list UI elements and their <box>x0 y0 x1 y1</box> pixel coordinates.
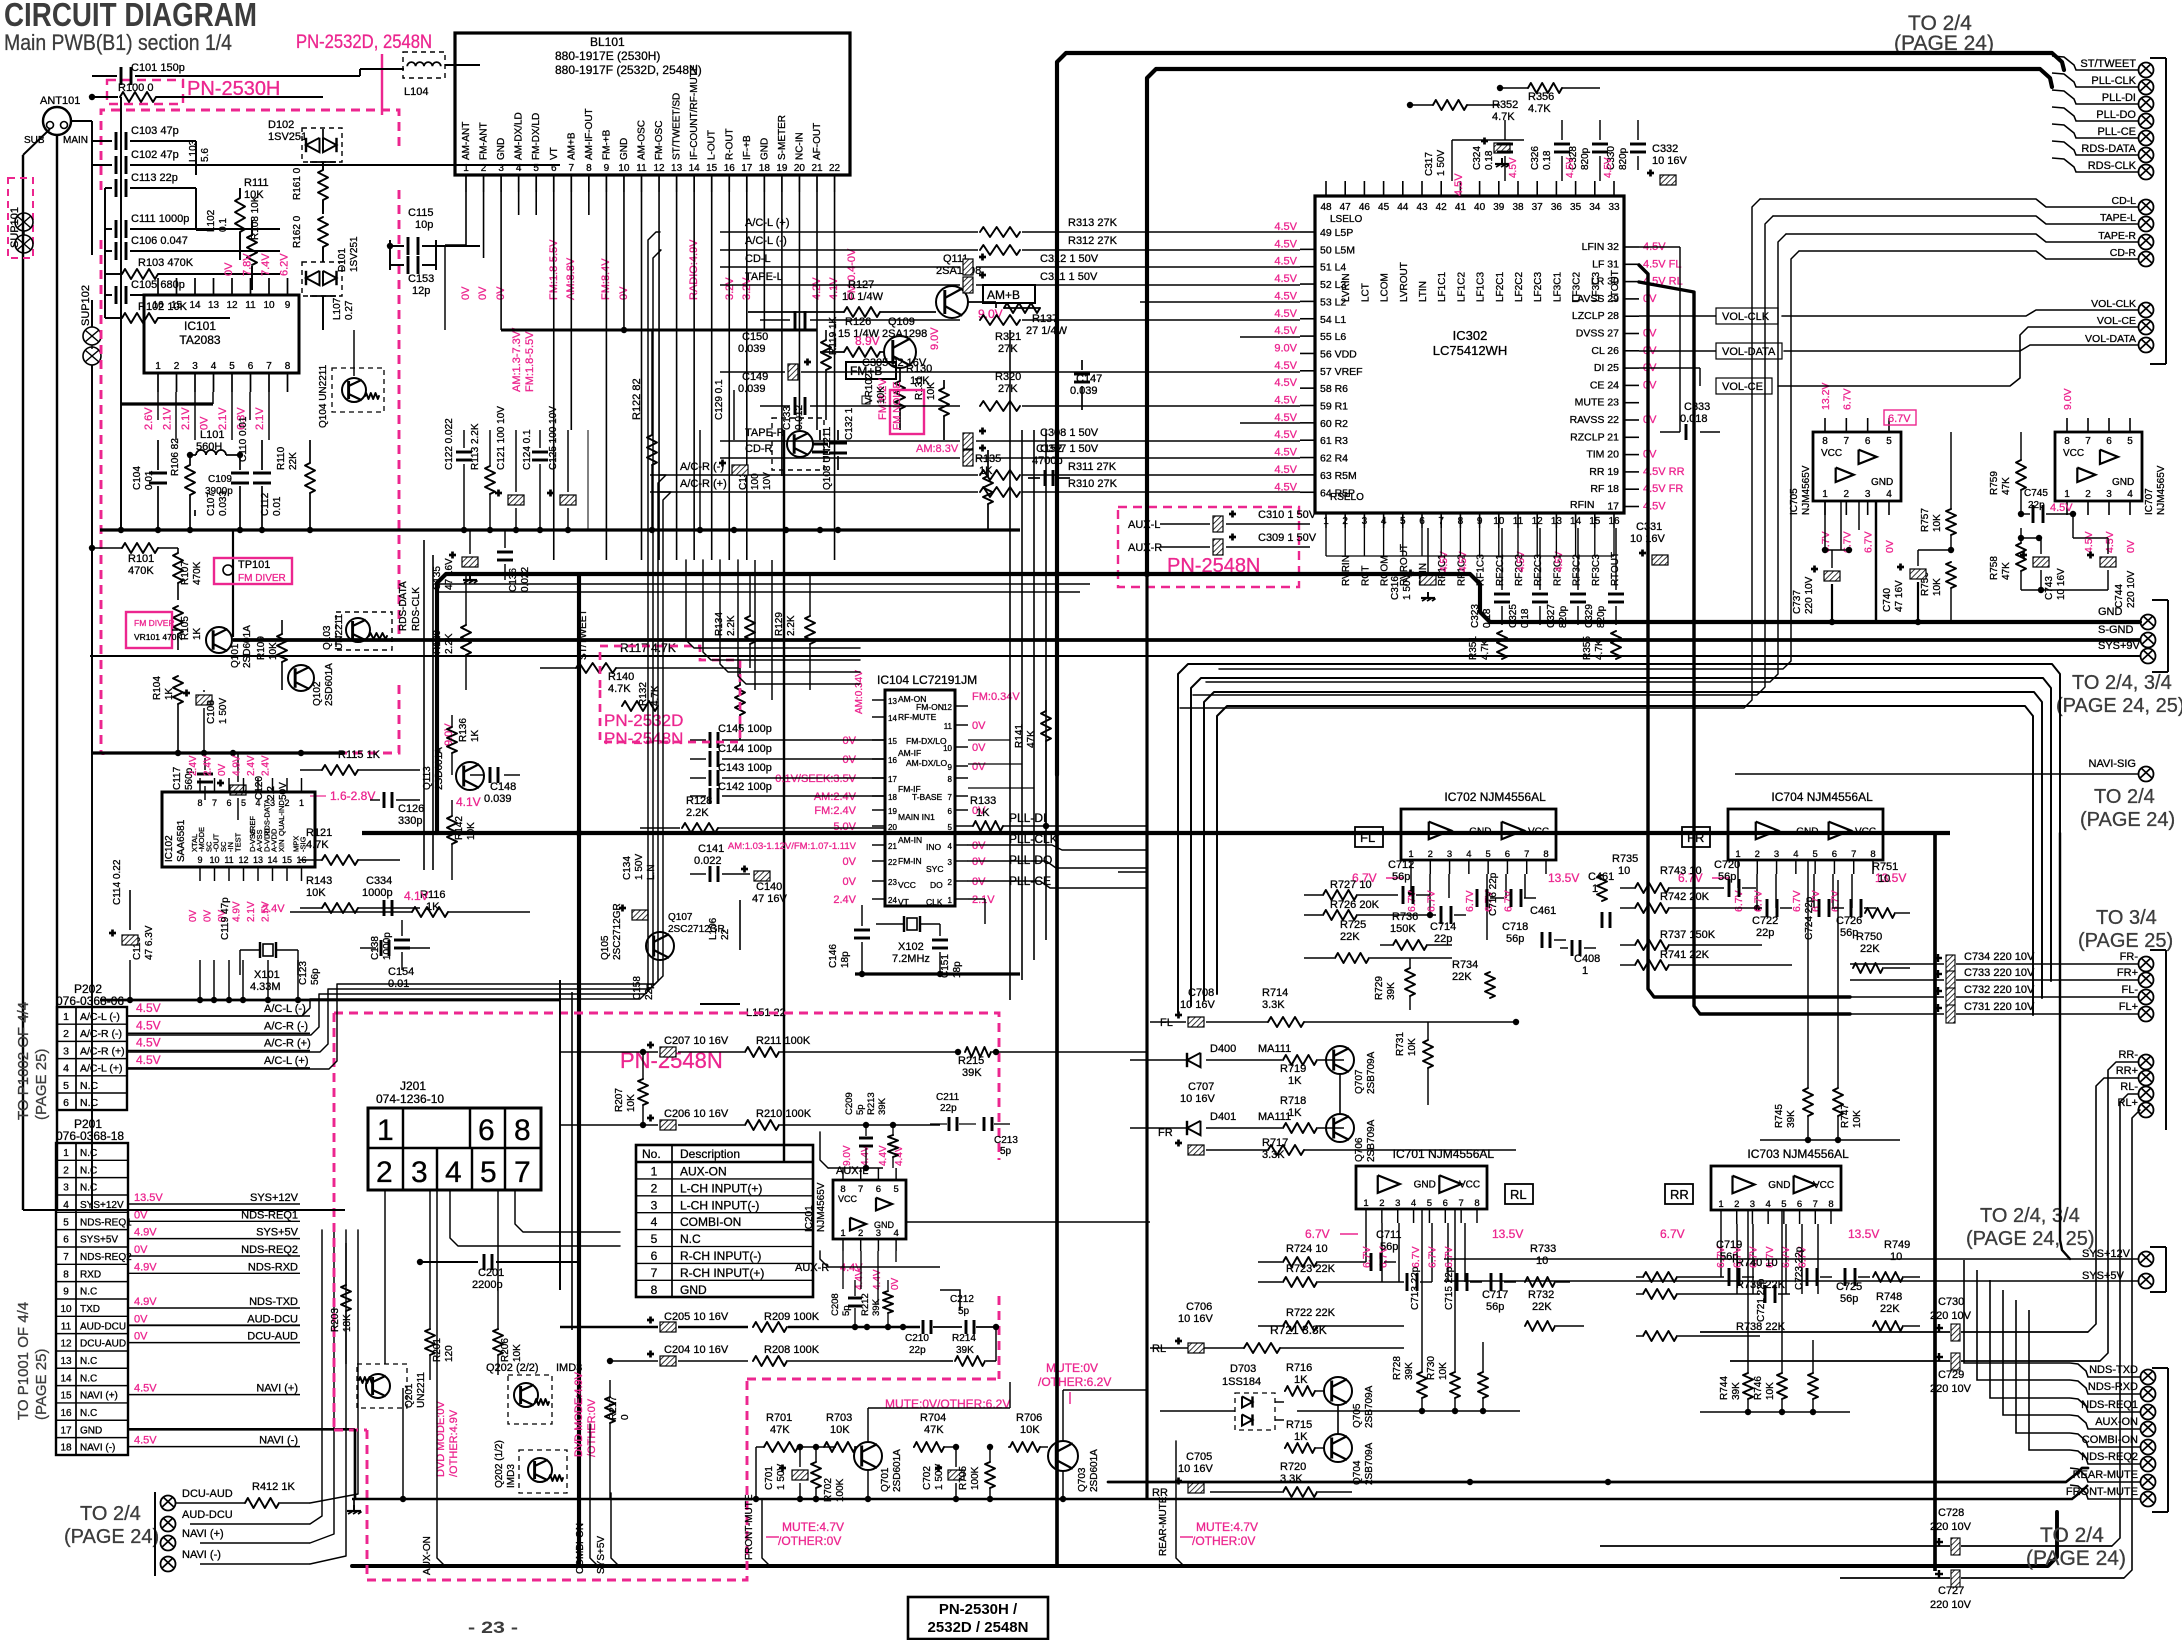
svg-text:VOL-CE: VOL-CE <box>2097 315 2136 327</box>
svg-text:22p: 22p <box>909 1345 926 1356</box>
svg-text:1: 1 <box>63 1011 69 1023</box>
svg-text:Q102: Q102 <box>312 681 323 706</box>
svg-text:GND: GND <box>1768 1180 1790 1191</box>
svg-text:2.6V: 2.6V <box>143 407 155 430</box>
svg-text:16: 16 <box>60 1408 72 1419</box>
svg-text:R716: R716 <box>1286 1362 1312 1374</box>
svg-text:(PAGE 24, 25): (PAGE 24, 25) <box>2056 695 2182 717</box>
svg-text:RR-: RR- <box>2118 1049 2138 1061</box>
wire top area verticals from BL101 <box>444 245 446 330</box>
svg-text:6.7V: 6.7V <box>1752 890 1764 912</box>
svg-text:RF3C2: RF3C2 <box>1572 554 1583 586</box>
svg-text:REAR-MUTE: REAR-MUTE <box>1158 1496 1169 1556</box>
svg-text:1K: 1K <box>192 627 203 640</box>
svg-text:1: 1 <box>1323 516 1329 527</box>
svg-text:R703: R703 <box>826 1412 852 1424</box>
svg-text:20: 20 <box>888 823 897 832</box>
svg-text:44: 44 <box>1397 202 1409 213</box>
svg-text:AM:1.3-7.3V/: AM:1.3-7.3V/ <box>511 327 523 392</box>
pins BL101 <box>465 175 467 192</box>
svg-text:VCC: VCC <box>2063 448 2084 459</box>
svg-text:6.7V: 6.7V <box>1443 1246 1455 1268</box>
svg-text:R724 10: R724 10 <box>1286 1243 1328 1255</box>
wire mute rail left <box>352 1485 2088 1499</box>
svg-text:C141: C141 <box>698 843 724 855</box>
connector REAR-MUTE <box>2141 1475 2156 1490</box>
svg-text:CE 24: CE 24 <box>1590 379 1619 391</box>
svg-text:SYS+5V: SYS+5V <box>596 1536 607 1574</box>
svg-text:RDS-DATA: RDS-DATA <box>2081 143 2136 155</box>
svg-text:4.5V: 4.5V <box>1274 429 1297 441</box>
svg-text:NJM4565V: NJM4565V <box>2156 465 2167 515</box>
svg-text:NJM4565V: NJM4565V <box>1801 465 1812 515</box>
svg-text:4: 4 <box>2127 489 2133 500</box>
svg-text:/OTHER:0V: /OTHER:0V <box>778 1534 841 1548</box>
svg-text:RVRIN: RVRIN <box>1341 555 1352 586</box>
svg-text:2: 2 <box>1844 489 1850 500</box>
svg-text:GND: GND <box>619 138 630 160</box>
svg-text:COMBI-ON: COMBI-ON <box>2082 1434 2138 1446</box>
wires IC701 pins down <box>1365 1223 1367 1262</box>
svg-text:22K: 22K <box>1340 931 1360 943</box>
svg-text:330p: 330p <box>398 815 422 827</box>
svg-text:C325: C325 <box>1508 604 1519 628</box>
svg-text:10: 10 <box>60 1304 72 1315</box>
svg-text:C333: C333 <box>1684 401 1710 413</box>
svg-text:150K: 150K <box>1390 923 1416 935</box>
svg-text:RCOM: RCOM <box>1380 555 1391 586</box>
svg-text:T-BASE: T-BASE <box>912 792 943 802</box>
connector NAVI (+) bottom left <box>161 1536 176 1551</box>
wire A/C route 0 <box>127 232 660 1016</box>
svg-text:0.033: 0.033 <box>218 491 229 516</box>
svg-text:R-OUT: R-OUT <box>724 128 735 160</box>
svg-text:A/C-L (-): A/C-L (-) <box>80 1011 120 1023</box>
svg-text:Q705: Q705 <box>1352 1403 1363 1428</box>
svg-text:10K: 10K <box>512 1344 523 1362</box>
svg-text:DCU-AUD: DCU-AUD <box>182 1488 233 1500</box>
svg-text:56p: 56p <box>1392 871 1410 883</box>
svg-text:49 L5P: 49 L5P <box>1320 227 1353 239</box>
svg-text:FM-OSC: FM-OSC <box>654 121 665 160</box>
svg-text:CL 26: CL 26 <box>1591 345 1619 357</box>
svg-text:C119 47p: C119 47p <box>220 897 231 940</box>
svg-text:4: 4 <box>948 842 953 851</box>
wire IC705 pins to junction row <box>1824 501 1826 550</box>
wire VOL rows to connectors <box>1782 310 2138 316</box>
svg-text:C702: C702 <box>922 1466 933 1490</box>
svg-text:1SS184: 1SS184 <box>1222 1376 1261 1388</box>
svg-text:10 16V: 10 16V <box>1178 1463 1214 1475</box>
pink box FM+B <box>846 362 896 379</box>
svg-text:COMBI-ON: COMBI-ON <box>680 1215 741 1229</box>
svg-text:GND: GND <box>2098 606 2123 618</box>
svg-text:6: 6 <box>2106 436 2112 447</box>
svg-text:4.1V: 4.1V <box>456 795 481 809</box>
svg-text:4.7K: 4.7K <box>650 685 661 706</box>
connector GND <box>2141 615 2156 630</box>
svg-text:10K: 10K <box>1438 1362 1449 1380</box>
svg-text:56p: 56p <box>1380 1241 1398 1253</box>
svg-text:7: 7 <box>2085 436 2091 447</box>
svg-text:16: 16 <box>1608 516 1620 527</box>
svg-text:LF1C3: LF1C3 <box>1476 272 1487 302</box>
svg-text:A/C-L (+): A/C-L (+) <box>264 1055 309 1067</box>
svg-text:C316: C316 <box>1390 576 1401 600</box>
svg-text:5: 5 <box>2127 436 2133 447</box>
svg-text:C727: C727 <box>1938 1585 1964 1597</box>
svg-text:R742 20K: R742 20K <box>1660 891 1710 903</box>
svg-text:3: 3 <box>498 163 504 174</box>
svg-text:220 10V: 220 10V <box>2126 570 2137 608</box>
wire R141 to PLL <box>1118 871 1147 873</box>
svg-text:59 R1: 59 R1 <box>1320 401 1348 413</box>
svg-text:0V: 0V <box>972 856 986 868</box>
svg-text:CIRCUIT DIAGRAM: CIRCUIT DIAGRAM <box>4 0 257 33</box>
wire P201 gnd to rail <box>354 1429 357 1499</box>
svg-text:C134: C134 <box>622 856 633 880</box>
svg-text:TAPE-L: TAPE-L <box>745 271 783 283</box>
svg-text:12: 12 <box>943 703 952 712</box>
svg-text:10 16V: 10 16V <box>1180 999 1216 1011</box>
svg-text:8: 8 <box>1822 436 1828 447</box>
svg-text:3.3K: 3.3K <box>1262 999 1285 1011</box>
svg-text:C108: C108 <box>206 700 217 724</box>
svg-text:0V: 0V <box>203 909 214 922</box>
svg-text:6.7V: 6.7V <box>1863 531 1875 553</box>
svg-text:47 16V: 47 16V <box>1894 580 1905 612</box>
svg-text:VCC: VCC <box>1459 1180 1480 1191</box>
svg-text:2.1V: 2.1V <box>972 894 995 906</box>
svg-text:MA111: MA111 <box>1258 1111 1291 1123</box>
svg-text:LF2C2: LF2C2 <box>1514 272 1525 302</box>
svg-text:2SB709A: 2SB709A <box>1366 1051 1377 1094</box>
svg-text:R110: R110 <box>276 446 287 470</box>
svg-text:LSELO: LSELO <box>1330 214 1362 225</box>
connector SYS+12V <box>2139 1252 2154 1267</box>
svg-text:38: 38 <box>1512 202 1524 213</box>
svg-text:39K: 39K <box>871 1298 882 1316</box>
pink box AM+B <box>983 285 1035 303</box>
svg-text:46: 46 <box>1359 202 1371 213</box>
svg-text:IF-+B: IF-+B <box>742 135 753 160</box>
svg-text:10 16V: 10 16V <box>1652 155 1688 167</box>
svg-text:4.5V: 4.5V <box>136 1036 161 1050</box>
wire vertical x1057 lower <box>1055 775 1059 1566</box>
svg-text:40: 40 <box>1474 202 1486 213</box>
svg-text:6.7V: 6.7V <box>1464 890 1476 912</box>
svg-text:C149: C149 <box>742 371 768 383</box>
svg-text:5: 5 <box>480 1156 497 1189</box>
svg-text:60 R2: 60 R2 <box>1320 418 1348 430</box>
svg-text:5: 5 <box>1427 1198 1432 1209</box>
svg-text:VCC: VCC <box>898 880 916 890</box>
svg-text:TP101: TP101 <box>238 559 270 571</box>
svg-text:4.7K: 4.7K <box>608 683 631 695</box>
svg-text:C107: C107 <box>206 492 217 516</box>
svg-text:39K: 39K <box>956 1345 974 1356</box>
svg-text:13.5V: 13.5V <box>1848 1227 1879 1241</box>
svg-text:5: 5 <box>241 798 246 808</box>
svg-text:10K: 10K <box>1765 1382 1776 1400</box>
svg-text:0V: 0V <box>199 416 211 430</box>
svg-text:10K: 10K <box>1020 1424 1040 1436</box>
svg-text:17: 17 <box>60 1425 72 1436</box>
svg-text:FRONT-MUTE: FRONT-MUTE <box>744 1494 755 1560</box>
svg-text:5: 5 <box>1812 849 1817 860</box>
svg-text:FM:2.4V: FM:2.4V <box>814 805 856 817</box>
svg-text:56p: 56p <box>1718 871 1736 883</box>
svg-text:IF-COUNT/RF-MUTE: IF-COUNT/RF-MUTE <box>689 64 700 160</box>
wire verticals center x1010 <box>1009 330 1011 1000</box>
svg-text:8.9V: 8.9V <box>855 334 880 348</box>
svg-text:N.C: N.C <box>80 1408 97 1419</box>
svg-text:39K: 39K <box>877 1097 888 1115</box>
svg-text:27K: 27K <box>998 343 1018 355</box>
svg-text:8: 8 <box>2064 436 2070 447</box>
svg-text:9: 9 <box>948 763 953 772</box>
svg-text:A/C-L (-): A/C-L (-) <box>264 1003 306 1015</box>
svg-text:PLL-DI: PLL-DI <box>1009 811 1046 825</box>
svg-text:10K: 10K <box>876 386 887 404</box>
inductor L104 <box>403 52 445 78</box>
svg-text:8: 8 <box>1543 849 1548 860</box>
svg-text:39K: 39K <box>1786 1110 1797 1128</box>
svg-text:9.0V: 9.0V <box>929 327 941 350</box>
svg-text:10: 10 <box>1493 516 1505 527</box>
svg-text:4.5V: 4.5V <box>1274 273 1297 285</box>
svg-text:NDS-REQ1: NDS-REQ1 <box>241 1209 298 1221</box>
wire BL101 pin wires to bus <box>587 430 589 530</box>
svg-text:R749: R749 <box>1884 1239 1910 1251</box>
svg-text:TO P1002 OF 4/4: TO P1002 OF 4/4 <box>15 1002 32 1120</box>
svg-text:ST/TWEET: ST/TWEET <box>578 609 589 660</box>
connector FRONT-MUTE <box>2141 1492 2156 1507</box>
svg-text:R701: R701 <box>766 1412 792 1424</box>
svg-text:2SB709A: 2SB709A <box>1364 1385 1375 1428</box>
svg-text:C124 0.1: C124 0.1 <box>522 429 533 470</box>
svg-text:AM+B: AM+B <box>566 132 577 160</box>
wire q108 cluster <box>699 430 701 530</box>
bus bottom y1566 <box>352 1512 2057 1566</box>
svg-text:RXD: RXD <box>80 1269 101 1280</box>
resistor extra vert right <box>1808 1373 1818 1399</box>
svg-text:6: 6 <box>63 1097 69 1109</box>
svg-text:FR-: FR- <box>2120 951 2139 963</box>
svg-text:C740: C740 <box>1882 588 1893 612</box>
svg-text:C206 10 16V: C206 10 16V <box>664 1108 729 1120</box>
resistor R356 4.7K <box>1528 83 1562 93</box>
svg-text:8: 8 <box>1828 1199 1833 1210</box>
svg-text:UN2211: UN2211 <box>416 1372 427 1408</box>
svg-text:0V: 0V <box>1643 328 1657 340</box>
svg-text:22K: 22K <box>1532 1301 1552 1313</box>
svg-text:C716 22p: C716 22p <box>1488 872 1499 916</box>
svg-text:D401: D401 <box>1210 1111 1236 1123</box>
wire A/C route 2 <box>127 475 666 1052</box>
transistor Q104 UN2211 <box>332 368 384 412</box>
IC IC104 LC72191JM <box>885 690 955 906</box>
svg-text:0V: 0V <box>134 1313 148 1325</box>
svg-text:TO 2/4: TO 2/4 <box>2040 1524 2104 1547</box>
capacitor C729 220 10V <box>1951 1353 1960 1370</box>
svg-text:TAPE-L: TAPE-L <box>2100 212 2136 224</box>
transistor Q704 2SB709A <box>1324 1434 1352 1462</box>
transistor Q102 2SD601A <box>288 665 314 691</box>
svg-text:18: 18 <box>60 1443 72 1454</box>
connector SYS+9V <box>2141 649 2156 664</box>
wire left bus verticals mid <box>57 1209 345 1211</box>
svg-text:TA2083: TA2083 <box>179 333 220 347</box>
svg-text:0V: 0V <box>460 286 472 300</box>
svg-text:R321: R321 <box>995 331 1021 343</box>
svg-text:MUTE 23: MUTE 23 <box>1575 397 1620 409</box>
svg-text:56p: 56p <box>1720 1251 1738 1263</box>
svg-text:3: 3 <box>1362 516 1368 527</box>
pink dashed box PN-2548N bottom <box>334 1013 999 1160</box>
svg-text:6.7V: 6.7V <box>1830 890 1842 912</box>
svg-text:R746: R746 <box>1753 1376 1764 1400</box>
svg-text:42: 42 <box>1436 202 1448 213</box>
svg-text:SYS+5V: SYS+5V <box>256 1227 299 1239</box>
svg-text:NDS-TXD: NDS-TXD <box>249 1296 298 1308</box>
svg-text:7: 7 <box>514 1156 531 1189</box>
svg-text:8: 8 <box>285 361 291 372</box>
svg-text:2SD601A: 2SD601A <box>324 663 335 706</box>
op-amp IC201 NJM4565V <box>833 1180 906 1239</box>
svg-text:4.4V: 4.4V <box>878 1145 889 1166</box>
svg-text:18: 18 <box>888 793 897 802</box>
svg-text:CLK: CLK <box>926 897 943 907</box>
op-amp IC705 NJM4565V <box>1813 432 1901 501</box>
svg-text:/OTHER:0V: /OTHER:0V <box>586 1398 598 1457</box>
svg-text:2SC2712GR: 2SC2712GR <box>668 924 725 935</box>
svg-text:C731 220 10V: C731 220 10V <box>1964 1001 2035 1013</box>
svg-text:TIM 20: TIM 20 <box>1586 449 1619 461</box>
connector RDS-DATA <box>2139 148 2154 163</box>
svg-text:6: 6 <box>1797 1199 1802 1210</box>
svg-text:4.5V: 4.5V <box>1274 238 1297 250</box>
svg-text:PLL-CE: PLL-CE <box>2097 126 2136 138</box>
svg-text:R722 22K: R722 22K <box>1286 1307 1336 1319</box>
svg-text:6.7V: 6.7V <box>1427 1246 1439 1268</box>
svg-text:4: 4 <box>211 361 217 372</box>
bracket sys <box>2165 1247 2167 1292</box>
svg-text:10: 10 <box>209 855 219 865</box>
svg-text:4.9V: 4.9V <box>134 1261 157 1273</box>
svg-text:36: 36 <box>1551 202 1563 213</box>
svg-text:R136: R136 <box>458 718 469 742</box>
svg-text:13: 13 <box>253 855 263 865</box>
bus vertical x579 <box>577 574 581 1566</box>
antenna ANT101 <box>43 107 71 135</box>
svg-text:R759: R759 <box>1989 471 2000 495</box>
svg-text:A/C-L (+): A/C-L (+) <box>745 217 790 229</box>
svg-text:5: 5 <box>1485 849 1490 860</box>
svg-text:C146: C146 <box>828 944 839 968</box>
svg-text:35: 35 <box>1570 202 1582 213</box>
wire ic104 right pins to bundle <box>968 739 1010 741</box>
svg-text:2: 2 <box>376 1156 393 1189</box>
svg-text:0V: 0V <box>1643 414 1657 426</box>
svg-text:PLL-DO: PLL-DO <box>2096 109 2136 121</box>
svg-text:12: 12 <box>653 163 665 174</box>
svg-text:4: 4 <box>1793 849 1798 860</box>
svg-text:R744: R744 <box>1719 1376 1730 1400</box>
svg-text:2: 2 <box>858 1228 863 1239</box>
wire y1411 cluster <box>1297 1410 1520 1412</box>
svg-text:5: 5 <box>651 1232 658 1246</box>
svg-text:27 1/4W: 27 1/4W <box>1026 325 1068 337</box>
svg-text:C311 1 50V: C311 1 50V <box>1040 271 1098 283</box>
svg-text:6: 6 <box>1443 1198 1448 1209</box>
svg-text:2: 2 <box>1379 1198 1384 1209</box>
svg-text:R705: R705 <box>958 1466 969 1490</box>
svg-text:RL+: RL+ <box>2118 1097 2139 1109</box>
svg-text:C113 22p: C113 22p <box>131 172 178 184</box>
wire BL101 osc pins down <box>771 560 773 700</box>
wire bottom j201 to q202 <box>384 1190 386 1255</box>
svg-text:7: 7 <box>651 1266 658 1280</box>
footer box PN-2530H 2532D 2548N <box>908 1597 1048 1639</box>
svg-text:1K: 1K <box>976 807 990 819</box>
wire CD route 0 <box>1180 199 1760 708</box>
svg-text:NDS-RXD: NDS-RXD <box>248 1261 298 1273</box>
svg-text:2.1V: 2.1V <box>217 407 229 430</box>
svg-text:2.4V: 2.4V <box>833 894 856 906</box>
bus mid gnd <box>362 831 1950 835</box>
svg-text:0.039: 0.039 <box>738 383 766 395</box>
svg-text:NDS-RXD: NDS-RXD <box>2088 1381 2138 1393</box>
svg-text:17: 17 <box>888 775 897 784</box>
svg-text:3: 3 <box>1395 1198 1400 1209</box>
svg-text:FL: FL <box>1160 1017 1173 1029</box>
svg-text:C103 47p: C103 47p <box>131 125 179 137</box>
svg-text:4.5V: 4.5V <box>1274 290 1297 302</box>
svg-text:2.4V: 2.4V <box>188 755 199 776</box>
svg-text:6.7V: 6.7V <box>1841 388 1853 410</box>
svg-text:47K: 47K <box>1026 730 1037 748</box>
crystal X102 7.2MHz <box>903 916 905 932</box>
svg-text:Q109: Q109 <box>888 316 915 328</box>
svg-text:2: 2 <box>1428 849 1433 860</box>
wire CD route 2 <box>1206 234 1786 682</box>
svg-text:L-CH INPUT(-): L-CH INPUT(-) <box>680 1198 759 1212</box>
svg-text:FR: FR <box>1158 1127 1173 1139</box>
svg-text:8: 8 <box>1458 516 1464 527</box>
svg-text:2.1V: 2.1V <box>180 407 192 430</box>
svg-text:1000p: 1000p <box>382 932 393 960</box>
svg-text:21: 21 <box>811 163 823 174</box>
svg-text:24: 24 <box>888 896 897 905</box>
svg-text:R107: R107 <box>180 561 191 585</box>
svg-text:AM-IF-OUT: AM-IF-OUT <box>584 108 595 160</box>
svg-text:PN-2548N: PN-2548N <box>604 729 683 748</box>
svg-text:RF 18: RF 18 <box>1590 483 1619 495</box>
svg-text:AM:2.4V: AM:2.4V <box>814 791 857 803</box>
wire ic302 top cluster <box>1451 140 1453 181</box>
pink dashed box PN-2548N aux <box>1118 507 1299 587</box>
svg-text:R706: R706 <box>1016 1412 1042 1424</box>
svg-text:R735: R735 <box>1612 853 1638 865</box>
svg-text:R121: R121 <box>306 827 332 839</box>
svg-text:N.C: N.C <box>680 1232 701 1246</box>
svg-text:NAVI (-): NAVI (-) <box>182 1549 221 1561</box>
svg-text:4: 4 <box>1886 489 1892 500</box>
wire route RL- <box>2112 1094 2138 1546</box>
svg-text:56p: 56p <box>1486 1301 1504 1313</box>
svg-text:C208: C208 <box>830 1293 841 1316</box>
